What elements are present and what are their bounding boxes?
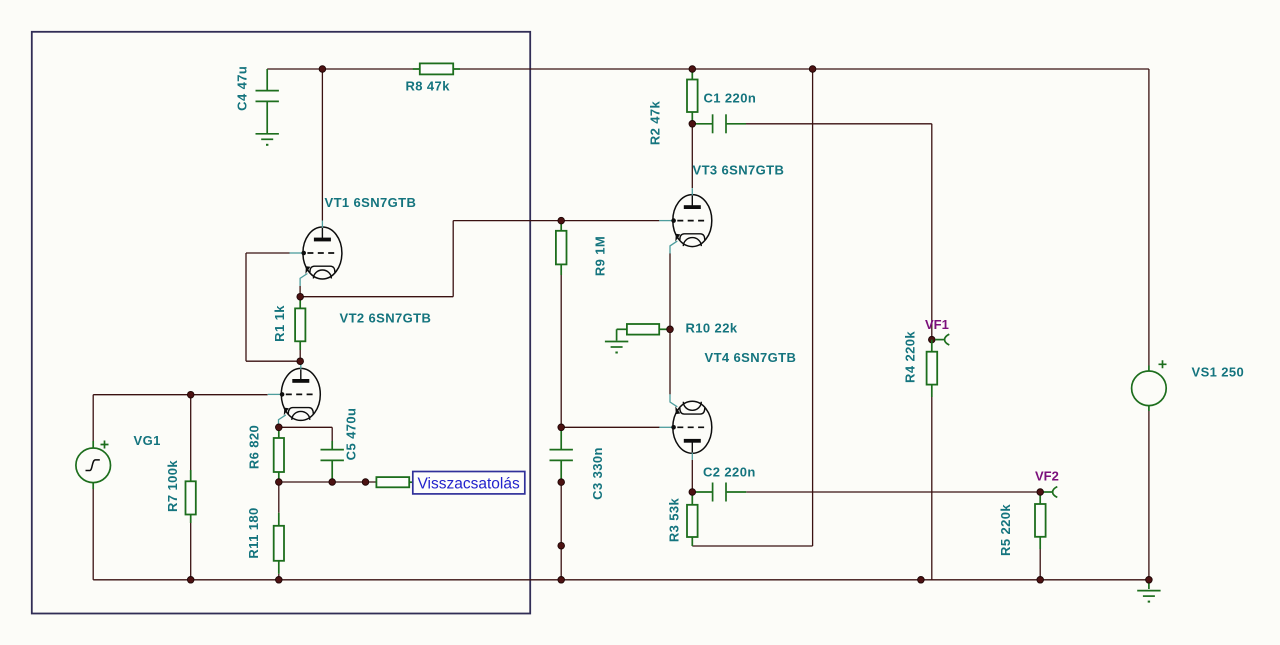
svg-text:C2 220n: C2 220n (703, 465, 756, 480)
node R9 top (558, 217, 565, 224)
svg-text:R6 820: R6 820 (247, 425, 262, 469)
node R7 bottom (187, 577, 194, 584)
node C3 bottom (558, 479, 565, 486)
resistor R2 (687, 69, 698, 124)
svg-text:VT4 6SN7GTB: VT4 6SN7GTB (705, 350, 797, 365)
svg-text:R4 220k: R4 220k (903, 331, 918, 383)
svg-text:C4 47u: C4 47u (235, 66, 250, 111)
wire VT4 grid row (561, 426, 659, 428)
svg-text:C5 470u: C5 470u (344, 408, 359, 461)
wire C3 lower column (560, 482, 562, 580)
node rail R4 (918, 577, 925, 584)
node ground corner (1146, 577, 1153, 584)
node top feedback riser (809, 66, 816, 73)
svg-text:R11 180: R11 180 (246, 507, 261, 558)
ground main (1148, 580, 1150, 589)
node C5 bottom (329, 479, 336, 486)
resistor R8 (413, 63, 460, 74)
node jumper (362, 479, 369, 486)
wire C3 column upper (560, 221, 562, 231)
node VT1 cathode (297, 293, 304, 300)
node C1 R2 (689, 121, 696, 128)
text box Visszacsatolas (413, 472, 525, 494)
wire top rail (267, 68, 1149, 70)
wire VG1 column upper (92, 395, 94, 441)
node VF1 (929, 336, 936, 343)
wire VS1 column upper (1148, 69, 1150, 366)
capacitor C4 (256, 69, 279, 133)
svg-text:VT3 6SN7GTB: VT3 6SN7GTB (693, 163, 785, 178)
node C3 column mid (558, 542, 565, 549)
wire VT1 cathode drop (299, 286, 301, 297)
wire R11 bottom lead (278, 574, 280, 580)
resistor R4 (927, 340, 938, 397)
wire VT3 anode column (691, 124, 693, 188)
node R10 (667, 326, 674, 333)
capacitor C1 (692, 114, 746, 133)
svg-text:Visszacsatolás: Visszacsatolás (418, 475, 520, 492)
wire feedback riser column (812, 69, 814, 546)
wire VT1 grid row (246, 252, 290, 254)
node R1 bottom (297, 358, 304, 365)
svg-text:R10 22k: R10 22k (686, 321, 738, 336)
wire VG1 column lower (92, 489, 94, 580)
wire bottom rail (93, 579, 1149, 581)
resistor R10 (617, 324, 670, 341)
wire VT1 grid column down (245, 253, 247, 361)
wire R4 column upper (931, 124, 933, 336)
pin VF2 (1043, 487, 1057, 498)
wire R7 column lower (190, 523, 192, 580)
wire VT2 cathode junction row (279, 426, 332, 428)
wire VT1 cathode row (300, 296, 453, 298)
wire R3 bottom row (692, 545, 812, 547)
svg-text:VT1 6SN7GTB: VT1 6SN7GTB (325, 195, 417, 210)
wire row to VT3 grid (453, 220, 659, 222)
node VT2 cathode (276, 424, 283, 431)
tube VT4 (659, 394, 712, 460)
svg-text:C1 220n: C1 220n (704, 91, 757, 106)
wire R5 lower lead (1039, 549, 1041, 580)
wire VT2 anode stub (300, 361, 302, 362)
capacitor C2 (692, 483, 746, 502)
node top R2 (689, 66, 696, 73)
svg-text:VF1: VF1 (925, 317, 949, 332)
tube VT3 (659, 188, 712, 254)
node VT4 anode (689, 489, 696, 496)
svg-text:R5 220k: R5 220k (998, 504, 1013, 556)
wire feedback row (279, 481, 377, 483)
svg-text:VG1: VG1 (134, 433, 161, 448)
wire to R1 bottom (246, 360, 300, 362)
pin VF1 (935, 334, 949, 345)
wire C2 to VF2 (746, 491, 1040, 493)
svg-text:VT2 6SN7GTB: VT2 6SN7GTB (340, 311, 432, 326)
capacitor C3 (550, 427, 573, 482)
ground at R10 (605, 342, 628, 354)
voltage source VS1 (1132, 360, 1167, 411)
resistor R6 (274, 427, 284, 482)
node R7 top (187, 391, 194, 398)
svg-text:R2 47k: R2 47k (648, 100, 663, 145)
svg-text:VS1 250: VS1 250 (1192, 365, 1245, 380)
voltage generator VG1 (76, 441, 111, 490)
node R11 bottom (276, 577, 283, 584)
wire VT4 anode lead (691, 460, 693, 492)
tube VT2 (268, 362, 321, 428)
resistor R9 (556, 231, 567, 265)
svg-text:C3 330n: C3 330n (590, 447, 605, 500)
wire VT3 cathode to R10 (669, 253, 671, 329)
svg-text:R3 53k: R3 53k (667, 497, 682, 542)
node VT4 grid row (558, 424, 565, 431)
wire R7 column upper (190, 395, 192, 470)
resistor R3 (687, 492, 698, 546)
svg-text:R8 47k: R8 47k (406, 79, 451, 94)
resistor R7 (186, 470, 196, 523)
wire R4 column lower (931, 397, 933, 580)
node R5 bottom (1037, 577, 1044, 584)
svg-text:R1 1k: R1 1k (272, 305, 287, 342)
jumper Visszacsatolas (376, 477, 413, 487)
svg-text:R7 100k: R7 100k (165, 460, 180, 512)
wire C5 top lead upper (331, 427, 333, 441)
wire R11 top lead (278, 482, 280, 513)
resistor R11 (274, 513, 284, 574)
node C3 column bottom (558, 577, 565, 584)
node VF2 (1037, 489, 1044, 496)
wire C1 to R4 column (746, 123, 932, 125)
capacitor C5 (321, 441, 344, 482)
resistor R5 (1035, 492, 1046, 549)
wire VT1 anode column (321, 69, 323, 221)
wire R9 to C3 (560, 275, 562, 427)
node R6 bottom (276, 479, 283, 486)
wire VS1 column lower (1148, 411, 1150, 580)
svg-text:R9 1M: R9 1M (593, 236, 608, 276)
svg-text:VF2: VF2 (1035, 469, 1059, 484)
resistor R1 (295, 297, 305, 362)
wire input row (93, 394, 267, 396)
wire riser to VT3 row (452, 221, 454, 297)
wire R10 to VT4 cathode (669, 329, 671, 394)
node top VT1 (319, 66, 326, 73)
frame rectangle (32, 32, 530, 614)
ground below C4 (256, 134, 279, 146)
tube VT1 (289, 221, 342, 287)
wire R9 lower lead (560, 264, 562, 275)
